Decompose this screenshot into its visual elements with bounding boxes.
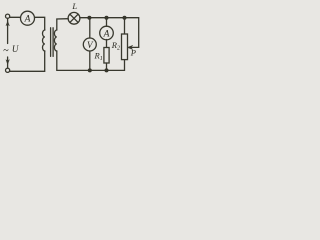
svg-text:P: P (130, 48, 136, 58)
terminal top-left (6, 14, 10, 18)
wire secondary top to lamp (57, 19, 68, 30)
transformer core (51, 28, 54, 57)
wire R1 to bottom rail (106, 63, 108, 70)
svg-text:A: A (24, 15, 31, 25)
wire down to voltmeter (89, 18, 91, 38)
arrow up on source lead (7, 19, 9, 44)
resistor R1 (104, 48, 109, 64)
ammeter A1 (21, 11, 35, 25)
svg-text:L: L (71, 1, 77, 11)
node dot top V (87, 16, 91, 20)
svg-text:~: ~ (3, 46, 9, 57)
wire down to rheostat R2 (124, 18, 126, 34)
node dot bottom V (88, 68, 92, 72)
wiper arrow P (130, 46, 139, 48)
svg-text:A: A (103, 29, 110, 39)
terminal bottom-left (6, 68, 10, 72)
wire top-left horizontal (10, 16, 21, 18)
node dot top R2 (123, 16, 127, 20)
voltmeter V (83, 38, 96, 51)
svg-text:U: U (12, 44, 19, 54)
wire A2 to resistor R1 (106, 40, 108, 48)
rheostat R2 (122, 34, 128, 60)
lamp L (68, 12, 80, 24)
wire secondary bottom rail (57, 51, 125, 70)
wire voltmeter to bottom rail (89, 51, 91, 70)
node dot top A2 (105, 16, 109, 20)
wire lamp to right corner (top rail) (80, 18, 139, 48)
wire A1 to transformer corner (35, 17, 45, 30)
node dot bottom R1 (105, 68, 109, 72)
wire bottom-left rail (10, 51, 45, 71)
ammeter A2 (100, 26, 114, 40)
transformer secondary coil (54, 30, 56, 51)
transformer primary coil (43, 30, 45, 51)
wire down to ammeter A2 (106, 18, 108, 27)
arrow down on source lead (7, 57, 9, 68)
